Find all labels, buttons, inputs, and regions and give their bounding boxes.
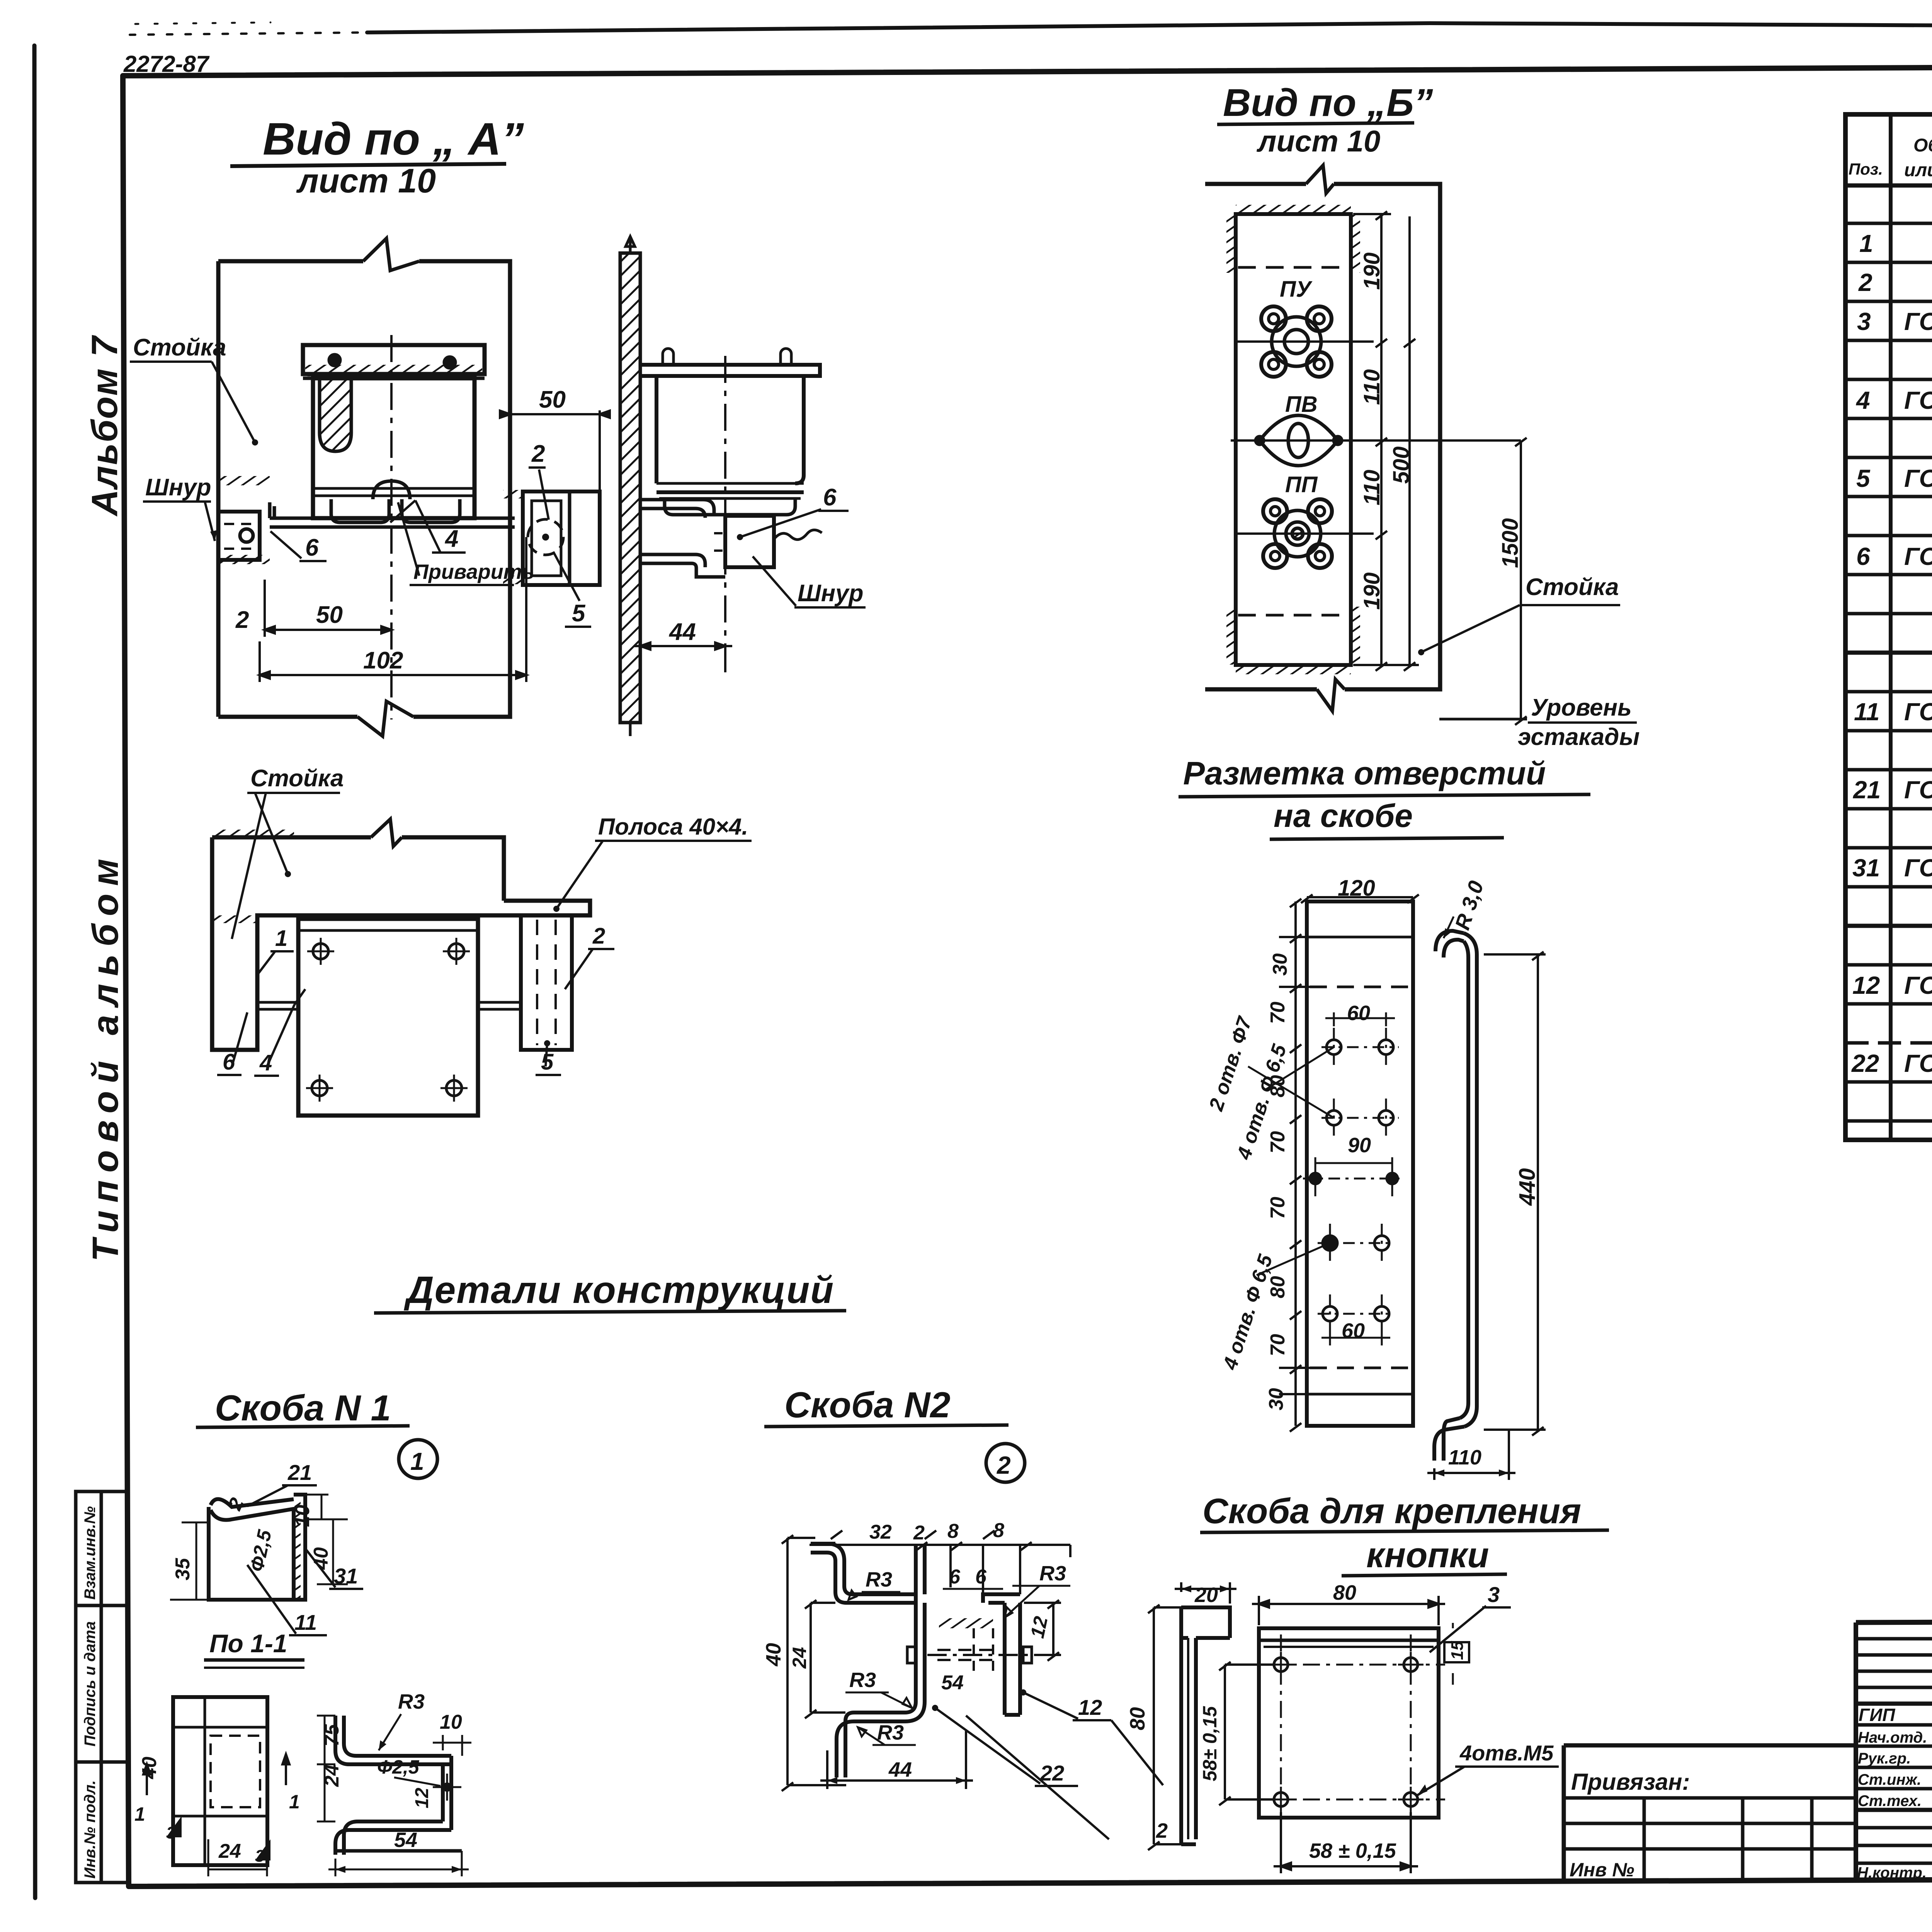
PKE switch top rail — [303, 345, 485, 374]
svg-text:21: 21 — [287, 1460, 312, 1485]
svg-text:лист 10: лист 10 — [1256, 124, 1380, 158]
view B title underline — [1217, 123, 1414, 124]
svg-text:22: 22 — [1851, 1049, 1879, 1077]
svg-text:1: 1 — [410, 1447, 424, 1475]
section marks — [143, 1754, 289, 1861]
svg-text:10: 10 — [291, 1505, 314, 1527]
svg-text:4: 4 — [444, 526, 458, 552]
svg-text:5: 5 — [1856, 464, 1871, 492]
svg-text:Привязан:: Привязан: — [1571, 1769, 1690, 1795]
svg-text:8: 8 — [993, 1519, 1004, 1542]
hole layout plate — [1307, 901, 1413, 1426]
PKE centre bump — [373, 481, 410, 499]
svg-text:ГОСТ 6009-74: ГОСТ 6009-74 — [1904, 308, 1932, 335]
svg-text:2: 2 — [224, 1495, 248, 1514]
svg-text:Инв №: Инв № — [1570, 1859, 1634, 1881]
margin stamp box Взам.инв.№ — [76, 1492, 128, 1605]
svg-text:80: 80 — [1333, 1581, 1356, 1604]
svg-text:Шнур: Шнур — [798, 580, 864, 607]
svg-text:54: 54 — [394, 1828, 417, 1852]
switch PU — [1236, 306, 1374, 377]
view B plate edge ticks — [1236, 205, 1351, 213]
svg-text:6: 6 — [949, 1566, 961, 1588]
signature table narrow top rows — [1856, 1637, 1932, 1641]
svg-text:Шнур: Шнур — [145, 474, 211, 501]
parts table row 1 — [1851, 228, 1932, 1117]
svg-text:1500: 1500 — [1498, 518, 1523, 568]
dim 440 — [1484, 952, 1546, 1435]
svg-text:2: 2 — [592, 923, 605, 949]
view A centre axis — [390, 335, 393, 719]
svg-text:R3: R3 — [849, 1668, 876, 1692]
svg-text:Ст.тех.: Ст.тех. — [1858, 1793, 1922, 1810]
svg-text:50: 50 — [539, 386, 566, 413]
mounting strip (polosa) — [270, 502, 515, 527]
lower post plate — [212, 837, 590, 1050]
view B outer rect — [1205, 184, 1440, 689]
svg-text:70: 70 — [1267, 1131, 1289, 1153]
stray long leader lines bottom right of skoba2 — [966, 1716, 1163, 1839]
PKE rail bolts — [305, 365, 482, 376]
svg-text:70: 70 — [1267, 1002, 1289, 1024]
skoba N2 pressed plate detail — [939, 1618, 993, 1628]
svg-text:на скобе: на скобе — [1274, 798, 1413, 834]
signature table name rows — [1856, 1723, 1932, 1727]
svg-text:4отв.М5: 4отв.М5 — [1459, 1741, 1554, 1765]
PKE bottom bands — [313, 487, 474, 490]
svg-text:ГИП: ГИП — [1859, 1705, 1895, 1725]
side bucket top rail — [640, 365, 820, 376]
svg-text:30: 30 — [1265, 1388, 1287, 1410]
svg-text:20: 20 — [1194, 1583, 1218, 1607]
svg-text:70: 70 — [1267, 1197, 1289, 1219]
wall top arrow mark — [626, 236, 635, 253]
svg-text:12: 12 — [1852, 971, 1880, 999]
svg-text:Ф2,5: Ф2,5 — [246, 1527, 276, 1573]
svg-text:32: 32 — [869, 1521, 892, 1543]
svg-text:60: 60 — [1347, 1002, 1370, 1025]
hole in section — [442, 1782, 452, 1792]
svg-text:2 отв. Ф7: 2 отв. Ф7 — [1205, 1014, 1257, 1114]
svg-text:R 3,0: R 3,0 — [1451, 878, 1488, 932]
svg-text:24: 24 — [218, 1840, 241, 1862]
svg-text:R3: R3 — [866, 1568, 892, 1591]
svg-text:4: 4 — [259, 1050, 272, 1075]
side rail bolts — [663, 349, 791, 365]
svg-text:Инв.№ подл.: Инв.№ подл. — [82, 1780, 99, 1879]
svg-text:По 1-1: По 1-1 — [209, 1629, 287, 1658]
svg-text:31: 31 — [1852, 854, 1880, 882]
svg-text:1: 1 — [289, 1791, 300, 1813]
dim 1500 line — [1515, 438, 1527, 725]
svg-text:2: 2 — [997, 1451, 1011, 1479]
svg-text:35: 35 — [172, 1558, 194, 1580]
svg-text:31: 31 — [334, 1564, 358, 1588]
hole layout holes — [1303, 1028, 1405, 1333]
svg-text:Ф2,5: Ф2,5 — [377, 1756, 420, 1778]
svg-text:8: 8 — [947, 1520, 959, 1543]
svg-text:ГОСТ 2590-71: ГОСТ 2590-71 — [1904, 543, 1932, 570]
svg-text:Стойка: Стойка — [1526, 574, 1619, 600]
svg-text:1: 1 — [134, 1803, 145, 1825]
svg-text:Альбом 7: Альбом 7 — [84, 335, 125, 517]
svg-text:11: 11 — [1854, 698, 1879, 726]
signature rows texts — [1857, 1705, 1932, 1882]
side bracket strips — [640, 500, 714, 518]
left bracket hatch band upper — [219, 476, 270, 485]
svg-text:ГОСТ 6009-74: ГОСТ 6009-74 — [1904, 776, 1932, 804]
circle mark 2 — [986, 1444, 1025, 1482]
svg-text:Скоба для крепления: Скоба для крепления — [1202, 1492, 1581, 1531]
svg-text:15: 15 — [1448, 1641, 1467, 1660]
svg-text:60: 60 — [1342, 1319, 1365, 1342]
svg-text:12: 12 — [1026, 1614, 1052, 1640]
svg-text:ГОСТ 6009-74: ГОСТ 6009-74 — [1904, 854, 1932, 882]
svg-text:6: 6 — [1856, 543, 1870, 570]
svg-text:Вид по „ А”: Вид по „ А” — [263, 114, 524, 165]
PKE switch body — [313, 378, 474, 518]
svg-text:3: 3 — [1488, 1582, 1500, 1607]
svg-text:или тип изделия: или тип изделия — [1904, 160, 1932, 180]
svg-text:ГОСТ 6009-74: ГОСТ 6009-74 — [1904, 698, 1932, 726]
svg-text:500: 500 — [1389, 446, 1414, 484]
svg-text:1: 1 — [1859, 230, 1873, 257]
parts table row lines — [1845, 222, 1932, 225]
svg-text:ПВ: ПВ — [1285, 392, 1318, 417]
svg-text:Приварить: Приварить — [413, 560, 534, 583]
svg-text:190: 190 — [1359, 572, 1384, 610]
margin stamp label dividers — [100, 1492, 103, 1883]
right bracket body — [523, 492, 600, 585]
svg-text:Вид по „Б”: Вид по „Б” — [1223, 81, 1433, 124]
skoba N1 section Z-bracket (bottom-right) — [335, 1716, 462, 1855]
left bracket box — [218, 512, 260, 560]
svg-text:40: 40 — [762, 1643, 785, 1667]
svg-text:Скоба N2: Скоба N2 — [784, 1384, 951, 1425]
privyazan box — [1564, 1745, 1856, 1882]
bent strip side view — [1434, 931, 1477, 1461]
svg-text:Стойка: Стойка — [133, 334, 226, 361]
left bracket hatch band lower — [219, 555, 270, 564]
svg-text:80: 80 — [1126, 1707, 1149, 1730]
svg-text:Рук.гр.: Рук.гр. — [1858, 1750, 1911, 1767]
view B dashed band lines — [1238, 266, 1349, 269]
svg-text:Нач.отд.: Нач.отд. — [1858, 1729, 1927, 1746]
boxed dim 15 — [1444, 1642, 1469, 1662]
svg-text:58 ± 0,15: 58 ± 0,15 — [1309, 1839, 1396, 1862]
svg-text:5: 5 — [572, 600, 586, 627]
svg-text:2: 2 — [1858, 269, 1872, 296]
svg-text:3: 3 — [1857, 308, 1871, 335]
leader 2 to bracket — [539, 469, 549, 520]
circle mark 1 — [399, 1440, 437, 1478]
view B inner plate — [1236, 214, 1351, 665]
svg-text:Разметка отверстий: Разметка отверстий — [1183, 755, 1546, 791]
svg-text:4: 4 — [1855, 386, 1870, 414]
svg-text:ГОСТ 6009-74: ГОСТ 6009-74 — [1904, 464, 1932, 492]
svg-text:2: 2 — [531, 440, 545, 467]
svg-text:6: 6 — [305, 534, 319, 561]
dim 50 top right of view A — [503, 410, 607, 491]
svg-text:2272-87: 2272-87 — [123, 51, 210, 77]
dim 50 bottom of view A — [265, 580, 391, 637]
svg-text:6: 6 — [975, 1566, 987, 1588]
svg-text:90: 90 — [1348, 1134, 1371, 1157]
view B break bottom — [1317, 679, 1345, 711]
right hanger strip dashed — [521, 915, 572, 1050]
svg-text:Полоса 40×4.: Полоса 40×4. — [598, 814, 748, 840]
svg-text:ПУ: ПУ — [1280, 277, 1313, 302]
svg-text:44: 44 — [888, 1758, 912, 1781]
svg-text:R3: R3 — [1039, 1562, 1066, 1585]
svg-text:50: 50 — [316, 602, 343, 628]
side bucket body — [656, 376, 804, 483]
skoba N2 bracket outline — [811, 1544, 1020, 1777]
svg-text:3: 3 — [255, 1847, 264, 1866]
svg-text:11: 11 — [294, 1610, 317, 1634]
svg-text:110: 110 — [1448, 1446, 1481, 1469]
PKE hatched pin — [320, 378, 351, 451]
svg-text:ГОСТ 6009-74: ГОСТ 6009-74 — [1904, 1049, 1932, 1077]
switch PV — [1231, 415, 1521, 466]
svg-text:44: 44 — [668, 619, 696, 645]
кнопка plate front view — [1259, 1628, 1439, 1818]
cord squiggle — [774, 530, 822, 539]
title block top border — [1856, 1619, 1932, 1622]
view B break top — [1306, 165, 1334, 193]
margin stamp box Инв.№ подл. — [76, 1762, 128, 1883]
PKE feet — [331, 499, 389, 522]
outer sheet edge line left — [34, 46, 35, 1898]
lower post hatch ticks — [213, 830, 294, 837]
svg-text:ГОСТ 6009-74: ГОСТ 6009-74 — [1904, 386, 1932, 414]
view A title underline — [230, 164, 506, 166]
svg-text:2: 2 — [1156, 1819, 1168, 1842]
view A break squiggle top — [363, 238, 419, 270]
signature table verticals — [1854, 1622, 1858, 1882]
svg-text:Ст.инж.: Ст.инж. — [1858, 1771, 1921, 1788]
front plate with holes — [298, 919, 478, 1116]
right bracket hatch bands — [503, 490, 522, 498]
right bracket target circle — [528, 519, 563, 555]
left bracket pin circle — [240, 529, 253, 542]
svg-text:ПП: ПП — [1285, 472, 1318, 497]
svg-text:эстакады: эстакады — [1518, 724, 1639, 750]
svg-text:ГОСТ 6009-74: ГОСТ 6009-74 — [1904, 971, 1932, 999]
margin stamp box Подпись и дата — [76, 1605, 128, 1762]
view A post plate outline — [218, 261, 510, 717]
svg-text:R3: R3 — [398, 1690, 425, 1713]
connector lines left — [257, 1002, 298, 1009]
svg-text:1: 1 — [275, 926, 287, 951]
svg-text:54: 54 — [941, 1672, 964, 1694]
svg-text:440: 440 — [1515, 1168, 1540, 1206]
estakada level line — [1439, 718, 1527, 721]
svg-text:110: 110 — [1359, 369, 1384, 405]
parts table outer border — [1845, 114, 1932, 1140]
skoba N1 upper detail — [209, 1495, 305, 1600]
dim line top of skoba N2 — [810, 1531, 1070, 1594]
side bracket box — [725, 516, 774, 567]
svg-text:Типовой альбом: Типовой альбом — [85, 851, 126, 1262]
connector lines right — [478, 1002, 521, 1009]
plate holes — [1236, 1634, 1445, 1839]
dim 102 of view A — [260, 537, 526, 682]
svg-text:Уровень: Уровень — [1531, 694, 1632, 721]
svg-text:Обозначение: Обозначение — [1913, 135, 1932, 156]
svg-text:70: 70 — [1267, 1334, 1289, 1356]
svg-text:кнопки: кнопки — [1366, 1536, 1489, 1575]
lower post break squiggle — [371, 819, 402, 846]
svg-text:Подпись и дата: Подпись и дата — [82, 1621, 99, 1747]
svg-text:12: 12 — [1078, 1695, 1102, 1719]
svg-text:2: 2 — [235, 607, 249, 633]
кнопка angle side view — [1181, 1607, 1230, 1844]
front plate holes — [306, 938, 470, 1102]
wall strip hatched — [620, 253, 640, 723]
svg-text:2: 2 — [913, 1522, 925, 1544]
parts table column lines — [1889, 114, 1893, 1140]
svg-text:Н.контр.: Н.контр. — [1857, 1864, 1927, 1881]
svg-text:102: 102 — [363, 647, 403, 674]
skoba N1 plan view (bottom-left) — [173, 1697, 267, 1865]
svg-text:Детали конструкций: Детали конструкций — [404, 1269, 834, 1311]
svg-text:10: 10 — [440, 1711, 462, 1733]
svg-text:Скоба N 1: Скоба N 1 — [215, 1388, 391, 1428]
parts table header bottom line — [1845, 184, 1932, 188]
svg-text:21: 21 — [1853, 776, 1881, 804]
svg-text:Стойка: Стойка — [250, 765, 344, 792]
svg-text:Взам.инв.№: Взам.инв.№ — [82, 1506, 99, 1600]
svg-text:лист 10: лист 10 — [296, 162, 436, 200]
svg-text:12: 12 — [412, 1787, 432, 1808]
svg-text:30: 30 — [1269, 953, 1291, 976]
svg-text:110: 110 — [1359, 470, 1384, 505]
svg-text:3: 3 — [166, 1823, 175, 1842]
svg-text:Поз.: Поз. — [1849, 160, 1883, 178]
svg-text:24: 24 — [789, 1647, 810, 1669]
view A break squiggle bottom — [357, 701, 413, 736]
left dim ladder line — [1294, 901, 1297, 1426]
svg-text:40: 40 — [138, 1757, 161, 1779]
switch PP — [1236, 499, 1374, 568]
svg-text:6: 6 — [823, 484, 837, 511]
side centre axis — [724, 356, 726, 655]
view B dimension ladder — [1353, 211, 1419, 671]
svg-text:190: 190 — [1359, 252, 1384, 290]
svg-text:58± 0,15: 58± 0,15 — [1199, 1706, 1221, 1781]
outer top trim line (dashed then solid) — [130, 32, 367, 35]
svg-text:R3: R3 — [877, 1721, 904, 1744]
